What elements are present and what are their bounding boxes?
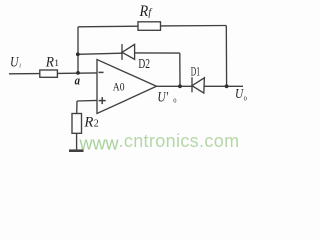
svg-text:U′: U′	[157, 90, 168, 106]
svg-text:D2: D2	[138, 56, 150, 71]
svg-text:U: U	[235, 87, 244, 102]
svg-text:.cntronics.com: .cntronics.com	[119, 131, 240, 151]
svg-text:0: 0	[173, 97, 176, 104]
svg-text:1: 1	[54, 59, 59, 69]
svg-text:D1: D1	[191, 64, 200, 79]
svg-text:0: 0	[244, 96, 247, 103]
svg-text:A0: A0	[113, 79, 125, 93]
svg-text:R: R	[83, 115, 93, 131]
svg-text:www: www	[79, 134, 120, 154]
svg-text:R: R	[139, 3, 149, 20]
svg-text:2: 2	[94, 119, 99, 130]
svg-text:R: R	[45, 54, 54, 70]
svg-text:a: a	[75, 73, 81, 88]
